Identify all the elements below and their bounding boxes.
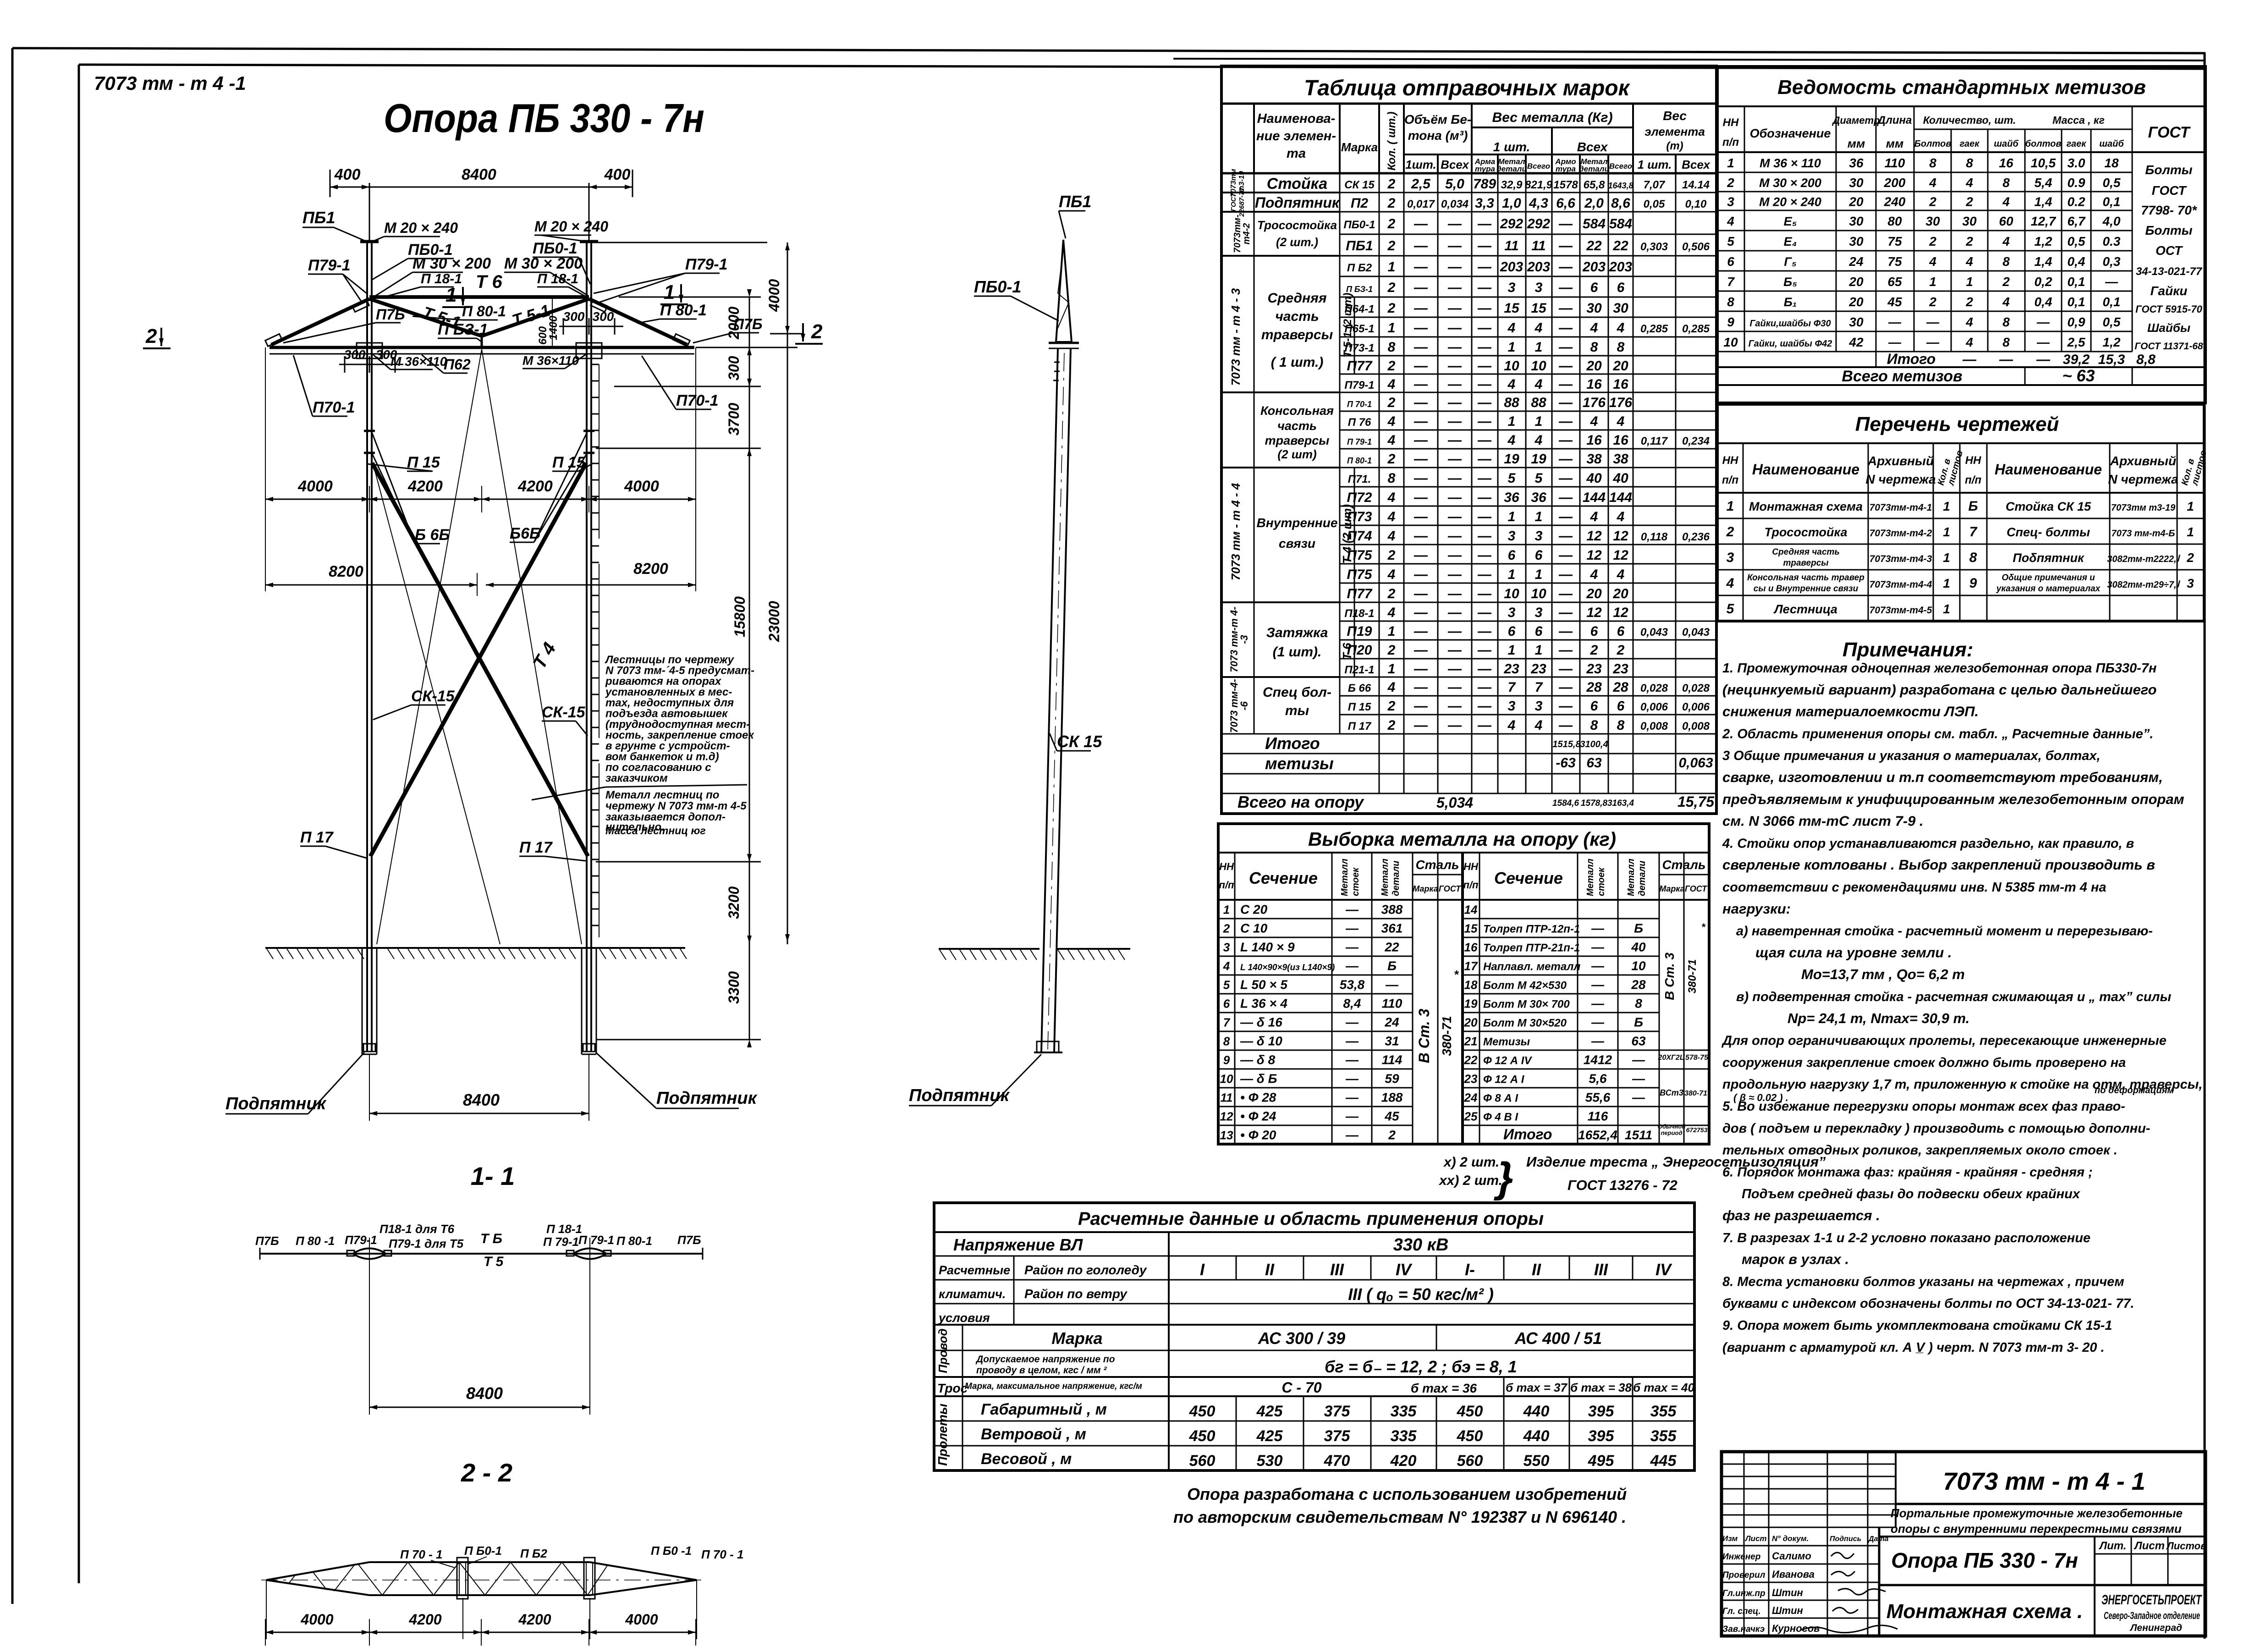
svg-text:—: — [1413, 661, 1428, 677]
thin tie line a [377, 349, 482, 944]
svg-text:1: 1 [1535, 643, 1543, 658]
svg-text:Допускаемое напряжение по: Допускаемое напряжение по [975, 1354, 1115, 1365]
svg-text:(вариант с арматурой кл. А: (вариант с арматурой кл. А V̲ ) черт. N … [1722, 1340, 2105, 1355]
svg-text:Мо=13,7 тм , Qо= 6,2 т: Мо=13,7 тм , Qо= 6,2 т [1801, 966, 1965, 982]
svg-text:Северо-Западное отделение: Северо-Западное отделение [2104, 1610, 2200, 1621]
svg-text:П70-1: П70-1 [313, 399, 355, 416]
svg-text:4: 4 [1534, 320, 1543, 336]
svg-text:335: 335 [1391, 1403, 1417, 1420]
svg-text:Подъем средней фазы: Подъем средней фазы до подвески обеих кр… [1742, 1187, 2081, 1201]
svg-text:450: 450 [1457, 1427, 1483, 1445]
vyborka data rows [1218, 918, 1413, 920]
svg-text:—: — [1345, 1034, 1359, 1048]
svg-text:4: 4 [1507, 433, 1516, 448]
svg-text:4: 4 [1387, 414, 1396, 429]
svg-text:—: — [1345, 959, 1359, 973]
svg-text:144: 144 [1609, 490, 1632, 505]
svg-text:т4-2: т4-2 [1242, 223, 1252, 245]
svg-text:4: 4 [1590, 414, 1598, 429]
svg-text:16: 16 [1613, 433, 1628, 448]
svg-text:—: — [1413, 624, 1428, 639]
ref line 15800 bottom [596, 861, 761, 863]
svg-text:II: II [1265, 1260, 1275, 1279]
svg-text:4: 4 [1965, 335, 1973, 349]
svg-text:—: — [1447, 605, 1462, 620]
svg-text:Е₄: Е₄ [1784, 235, 1797, 248]
svg-text:3: 3 [1508, 605, 1516, 620]
svg-text:Оδщие примечания и: Оδщие примечания и [2002, 573, 2095, 583]
svg-text:1,0: 1,0 [1502, 196, 1521, 211]
svg-text:—: — [1413, 509, 1428, 524]
svg-text:—: — [1413, 395, 1428, 410]
svg-text:176: 176 [1609, 395, 1632, 410]
svg-text:578-75: 578-75 [1685, 1054, 1709, 1062]
svg-text:36: 36 [1504, 490, 1519, 505]
svg-text:6: 6 [1590, 624, 1598, 639]
svg-text:2,0: 2,0 [1584, 196, 1604, 211]
svg-text:7073тм-т4-2: 7073тм-т4-2 [1870, 528, 1932, 539]
svg-text:88: 88 [1531, 395, 1546, 410]
svg-text:—: — [1413, 529, 1428, 544]
svg-text:—: — [1632, 1053, 1645, 1067]
svg-text:—: — [1591, 978, 1605, 992]
svg-text:Т Б: Т Б [480, 1231, 502, 1246]
vedomost data rows [1717, 172, 2132, 173]
svg-text:292: 292 [1500, 216, 1523, 231]
svg-text:—: — [1447, 414, 1462, 429]
signature scribbles [1831, 1553, 1854, 1558]
svg-text:Всех: Всех [1441, 158, 1469, 171]
svg-text:ПБ1: ПБ1 [1059, 192, 1091, 211]
svg-text:—: — [1477, 605, 1492, 620]
svg-text:7: 7 [1508, 680, 1516, 695]
svg-text:7073 тм - т 4 - 3: 7073 тм - т 4 - 3 [1229, 288, 1243, 385]
svg-text:4: 4 [1929, 176, 1936, 190]
svg-text:4: 4 [1965, 315, 1973, 329]
svg-text:2: 2 [811, 320, 823, 343]
svg-text:14.14: 14.14 [1682, 179, 1710, 191]
svg-text:—: — [1591, 1015, 1605, 1030]
svg-text:Лит.: Лит. [2099, 1540, 2127, 1552]
svg-text:114: 114 [1382, 1053, 1402, 1067]
svg-text:2: 2 [1387, 358, 1396, 374]
svg-text:355: 355 [1650, 1403, 1677, 1420]
svg-text:ГОСТ: ГОСТ [2152, 183, 2188, 198]
svg-text:П 70 - 1: П 70 - 1 [400, 1547, 442, 1561]
svg-text:0.9: 0.9 [2068, 176, 2085, 190]
svg-text:П77: П77 [1347, 358, 1373, 374]
svg-text:8: 8 [1223, 1035, 1230, 1048]
svg-text:1: 1 [1535, 340, 1543, 355]
svg-text:ГОСТ 5915-70: ГОСТ 5915-70 [2135, 303, 2202, 315]
table perechen chertezhey outline [1717, 404, 2204, 621]
svg-text:1. Промежуточная одноцепная: 1. Промежуточная одноцепная железобетонн… [1722, 661, 2156, 676]
pit outline right pole [581, 949, 583, 1054]
svg-text:39,2: 39,2 [2063, 352, 2090, 367]
svg-text:10: 10 [1504, 358, 1519, 374]
svg-text:Всего на опору: Всего на опору [1237, 793, 1364, 811]
svg-text:1400: 1400 [547, 315, 560, 340]
svg-text:ГОСТ 11371-68: ГОСТ 11371-68 [2134, 341, 2203, 352]
svg-text:6. Порядок монтажа фаз: кр: 6. Порядок монтажа фаз: крайняя - крайня… [1722, 1165, 2093, 1179]
svg-text:П 80-1: П 80-1 [616, 1234, 652, 1248]
svg-text:12: 12 [1613, 605, 1628, 620]
svg-text:1643,8: 1643,8 [1608, 181, 1633, 190]
ladder tick marks right pole [592, 364, 599, 365]
svg-text:ние элемен-: ние элемен- [1256, 129, 1336, 143]
svg-text:2: 2 [1727, 176, 1734, 190]
svg-text:1: 1 [1508, 509, 1516, 524]
svg-text:—: — [1632, 1090, 1645, 1105]
svg-text:0,3: 0,3 [2103, 254, 2121, 269]
svg-text:С - 70: С - 70 [1281, 1379, 1321, 1396]
svg-text:300: 300 [563, 309, 585, 324]
svg-text:Напряжение ВЛ: Напряжение ВЛ [953, 1235, 1083, 1254]
svg-text:2: 2 [1388, 1128, 1396, 1142]
svg-text:Диаметр: Диаметр [1831, 115, 1880, 126]
svg-text:330 кВ: 330 кВ [1393, 1235, 1449, 1255]
svg-text:63: 63 [1586, 755, 1602, 771]
svg-text:—: — [1477, 259, 1492, 275]
svg-text:*: * [1701, 921, 1706, 933]
svg-text:2: 2 [1387, 280, 1396, 295]
svg-text:Nр= 24,1 т, Nmax= 30,9 т.: Nр= 24,1 т, Nmax= 30,9 т. [1787, 1010, 1969, 1026]
svg-text:0.2: 0.2 [2068, 195, 2085, 209]
svg-text:—: — [1447, 529, 1462, 544]
svg-text:7073 тм - т 4 - 1: 7073 тм - т 4 - 1 [1943, 1468, 2145, 1495]
svg-text:ГОСТ: ГОСТ [1230, 192, 1237, 211]
svg-text:3: 3 [1508, 529, 1516, 544]
svg-text:П Б0-1: П Б0-1 [464, 1544, 502, 1558]
svg-text:4: 4 [1965, 176, 1973, 190]
svg-text:0,1: 0,1 [2068, 295, 2085, 309]
svg-text:530: 530 [1257, 1452, 1283, 1470]
svg-text:23: 23 [1464, 1072, 1478, 1086]
svg-text:—: — [1447, 320, 1462, 336]
svg-text:-63: -63 [1556, 755, 1576, 771]
svg-text:380-71: 380-71 [1686, 959, 1699, 994]
svg-text:ПБ1: ПБ1 [302, 208, 335, 227]
svg-text:Опора разработана с испол: Опора разработана с использованием изобр… [1187, 1485, 1627, 1503]
vyborka header [1234, 853, 1236, 1144]
svg-text:П62: П62 [444, 356, 471, 373]
svg-text:—: — [1447, 471, 1462, 486]
svg-text:7073 тм - т 4 - 4: 7073 тм - т 4 - 4 [1229, 483, 1243, 580]
svg-text:сверленые котлованы . Выбор: сверленые котлованы . Выбор закреплений … [1722, 857, 2155, 873]
svg-text:12: 12 [1586, 548, 1602, 563]
svg-text:Длина: Длина [1877, 114, 1912, 127]
svg-text:П 18-1: П 18-1 [546, 1222, 582, 1236]
svg-text:СК-15: СК-15 [411, 688, 455, 705]
svg-text:Монтажная схема: Монтажная схема [1749, 500, 1863, 513]
svg-text:Затяжка: Затяжка [1266, 625, 1328, 640]
svg-text:9: 9 [1727, 315, 1734, 329]
svg-text:20ХГ2Ц: 20ХГ2Ц [1658, 1054, 1685, 1062]
hanger PB3-1 [481, 336, 483, 347]
svg-text:110: 110 [1382, 997, 1402, 1011]
svg-text:4: 4 [1617, 320, 1625, 336]
svg-text:Марка: Марка [1413, 884, 1438, 893]
svg-text:М 30 × 200: М 30 × 200 [412, 255, 491, 272]
svg-text:7798- 70*: 7798- 70* [2141, 203, 2197, 217]
svg-text:—: — [1477, 586, 1492, 601]
svg-text:4: 4 [1387, 529, 1396, 544]
svg-text:20: 20 [1586, 358, 1602, 374]
svg-text:0,006: 0,006 [1640, 701, 1668, 713]
svg-text:7: 7 [1727, 275, 1735, 289]
svg-text:335: 335 [1391, 1427, 1417, 1445]
svg-text:—: — [1888, 335, 1902, 349]
svg-text:11: 11 [1221, 1091, 1233, 1105]
svg-text:375: 375 [1324, 1403, 1351, 1420]
svg-text:8: 8 [2002, 254, 2010, 269]
svg-text:10: 10 [1723, 335, 1738, 349]
svg-text:Опора ПБ 330 - 7н: Опора ПБ 330 - 7н [1891, 1548, 2078, 1572]
svg-text:—: — [1558, 238, 1573, 253]
svg-text:10: 10 [1631, 959, 1646, 973]
svg-text:условия: условия [938, 1311, 990, 1325]
svg-text:—: — [1558, 680, 1573, 695]
svg-text:8200: 8200 [329, 563, 363, 580]
svg-text:0,4: 0,4 [2068, 254, 2085, 269]
svg-text:560: 560 [1189, 1452, 1215, 1470]
svg-text:—: — [1447, 377, 1462, 392]
svg-text:—: — [1447, 433, 1462, 448]
svg-text:а) наветренная стойка - расч: а) наветренная стойка - расчетный момент… [1736, 924, 2153, 939]
ground line and hatching left drawing [265, 947, 685, 949]
svg-text:12: 12 [1220, 1110, 1233, 1123]
svg-text:Наплавл. металл: Наплавл. металл [1483, 961, 1580, 973]
svg-text:40: 40 [1631, 940, 1646, 954]
svg-text:—: — [1558, 661, 1573, 677]
svg-text:4: 4 [1617, 567, 1625, 582]
svg-text:—: — [2036, 335, 2050, 349]
svg-text:6: 6 [1535, 624, 1543, 639]
svg-text:8: 8 [2002, 176, 2010, 190]
svg-text:5: 5 [1727, 234, 1734, 248]
middle pole center dashline [1048, 353, 1064, 1050]
svg-text:—: — [1477, 699, 1492, 714]
svg-text:1: 1 [1929, 275, 1936, 289]
svg-text:4: 4 [1387, 680, 1396, 695]
svg-text:П 80-1: П 80-1 [660, 302, 707, 319]
svg-text:Спец- болты: Спец- болты [2007, 525, 2090, 539]
svg-text:П 17: П 17 [300, 829, 334, 846]
svg-text:1: 1 [2187, 499, 2194, 513]
title block signature grid upper [1721, 1464, 1896, 1465]
svg-text:12: 12 [1586, 529, 1602, 544]
svg-text:1: 1 [1388, 661, 1396, 677]
svg-text:в) подветренная стойка - расч: в) подветренная стойка - расчетная сжима… [1736, 990, 2171, 1004]
svg-text:Подпись: Подпись [1830, 1535, 1861, 1543]
pole boot left [363, 1044, 375, 1052]
middle pole boot [1037, 1041, 1059, 1052]
section 1-1 node right lens [573, 1249, 606, 1259]
svg-text:21: 21 [1464, 1035, 1478, 1048]
svg-text:188: 188 [1381, 1090, 1403, 1105]
svg-text:3163,4: 3163,4 [1607, 798, 1634, 808]
svg-text:0,9: 0,9 [2068, 315, 2085, 329]
svg-text:Количество, шт.: Количество, шт. [1923, 114, 2016, 126]
svg-text:п/п: п/п [1722, 474, 1738, 486]
svg-text:40: 40 [1612, 471, 1628, 486]
svg-text:Всех: Всех [1577, 140, 1608, 154]
svg-text:65,8: 65,8 [1584, 179, 1605, 191]
svg-text:Район по ветру: Район по ветру [1024, 1287, 1127, 1301]
svg-text:4: 4 [1617, 414, 1625, 429]
svg-text:8: 8 [1617, 718, 1625, 733]
svg-text:—: — [1477, 643, 1492, 658]
svg-text:—: — [1345, 903, 1359, 917]
svg-text:440: 440 [1523, 1403, 1550, 1420]
svg-text:240: 240 [1884, 195, 1906, 209]
table vyborka outline [1218, 824, 1709, 1144]
svg-text:7073тм-т4-1: 7073тм-т4-1 [1870, 502, 1932, 513]
svg-text:Б: Б [1387, 959, 1397, 973]
svg-text:4: 4 [2002, 195, 2010, 209]
svg-text:Ф 12 А I: Ф 12 А I [1483, 1074, 1525, 1086]
svg-text:176: 176 [1583, 395, 1606, 410]
svg-text:—: — [1447, 643, 1462, 658]
svg-text:М 30 × 200: М 30 × 200 [1759, 176, 1821, 190]
svg-text:Стойка СК 15: Стойка СК 15 [2006, 500, 2091, 513]
svg-text:1,2: 1,2 [2035, 234, 2052, 248]
svg-text:380-71: 380-71 [1684, 1090, 1707, 1097]
svg-text:Архивный: Архивный [2110, 454, 2176, 468]
svg-text:584: 584 [1609, 216, 1632, 231]
svg-text:В Ст. 3: В Ст. 3 [1662, 953, 1677, 1000]
svg-text:18: 18 [1464, 978, 1478, 992]
svg-text:М 20 × 240: М 20 × 240 [534, 218, 608, 235]
svg-text:(2 шт.): (2 шт.) [1276, 235, 1318, 249]
svg-text:—: — [1447, 358, 1462, 374]
svg-text:23: 23 [1612, 661, 1628, 677]
svg-text:0,008: 0,008 [1682, 720, 1710, 732]
svg-text:388: 388 [1381, 903, 1403, 917]
svg-text:Сталь: Сталь [1415, 858, 1459, 872]
svg-text:Металл: Металл [1380, 859, 1390, 896]
svg-text:18: 18 [2104, 156, 2119, 170]
pole boot right [583, 1044, 595, 1052]
svg-text:11: 11 [1504, 238, 1518, 253]
svg-text:Таблица отправочных марок: Таблица отправочных марок [1304, 76, 1631, 100]
svg-text:Габаритный , м: Габаритный , м [981, 1401, 1107, 1418]
svg-text:—: — [1888, 315, 1902, 329]
svg-text:Наименование: Наименование [1752, 461, 1859, 478]
svg-text:Стойка: Стойка [1267, 175, 1327, 193]
svg-text:Опора ПБ 330 - 7н: Опора ПБ 330 - 7н [384, 95, 704, 141]
svg-text:ГОСТ: ГОСТ [1685, 884, 1708, 893]
svg-text:2: 2 [1223, 922, 1230, 936]
svg-text:Т 6: Т 6 [476, 272, 503, 292]
svg-text:1: 1 [1508, 340, 1516, 355]
svg-text:16: 16 [1586, 377, 1602, 392]
svg-text:24: 24 [1384, 1015, 1399, 1030]
section 1-1 dim 8400 [369, 1265, 370, 1415]
svg-text:—: — [1477, 301, 1492, 316]
svg-text:25: 25 [1464, 1110, 1478, 1123]
svg-text:Средняя часть: Средняя часть [1772, 547, 1839, 557]
border frame inner [79, 65, 2205, 69]
svg-text:п/п: п/п [1722, 136, 1739, 149]
svg-text:23000: 23000 [766, 601, 782, 642]
svg-text:— δ 8: — δ 8 [1240, 1053, 1276, 1067]
svg-text:1578: 1578 [1553, 179, 1578, 191]
svg-text:—: — [1477, 340, 1492, 355]
svg-text:1578,8: 1578,8 [1581, 798, 1608, 808]
traverse lower chord second line [269, 353, 694, 355]
svg-text:—: — [1413, 340, 1428, 355]
svg-text:б mах = 38: б mах = 38 [1570, 1381, 1632, 1394]
svg-text:Е₅: Е₅ [1784, 215, 1797, 228]
svg-text:0,5: 0,5 [2068, 234, 2085, 248]
svg-text:—: — [1413, 586, 1428, 601]
svg-text:5,0: 5,0 [1445, 176, 1464, 192]
svg-text:10: 10 [1531, 586, 1546, 601]
svg-text:8: 8 [1590, 340, 1598, 355]
svg-text:L 50 × 5: L 50 × 5 [1240, 978, 1287, 992]
svg-text:8: 8 [1388, 471, 1396, 486]
svg-text:—: — [2036, 315, 2050, 329]
svg-text:55,6: 55,6 [1585, 1090, 1611, 1105]
svg-text:Штин: Штин [1772, 1587, 1803, 1598]
svg-text:3: 3 [1535, 529, 1543, 544]
right cable mast PB1 [588, 183, 590, 242]
svg-text:Металл: Металл [1626, 859, 1636, 896]
svg-text:8400: 8400 [466, 1384, 503, 1403]
svg-text:—: — [1345, 1072, 1359, 1086]
svg-text:13: 13 [1220, 1129, 1233, 1142]
svg-text:п/п: п/п [1463, 879, 1479, 891]
svg-text:—: — [1447, 301, 1462, 316]
svg-text:Итого: Итого [1887, 351, 1936, 367]
svg-text:425: 425 [1256, 1403, 1283, 1420]
svg-text:1- 1: 1- 1 [471, 1162, 515, 1190]
svg-text:Ленинград: Ленинград [2129, 1623, 2182, 1633]
collar small ticks [1054, 362, 1060, 363]
title block outline [1721, 1452, 2205, 1636]
svg-text:Г₅: Г₅ [1784, 255, 1796, 269]
svg-text:период: период [1661, 1129, 1682, 1136]
svg-text:Обычной: Обычной [1658, 1123, 1686, 1130]
svg-text:— δ 16: — δ 16 [1240, 1015, 1282, 1030]
svg-text:300: 300 [593, 309, 614, 324]
svg-text:15: 15 [1531, 301, 1547, 316]
svg-text:65: 65 [1887, 275, 1902, 289]
svg-text:—: — [1345, 1109, 1359, 1123]
svg-text:2: 2 [1387, 216, 1396, 231]
svg-text:—: — [1477, 377, 1492, 392]
svg-text:1412: 1412 [1584, 1053, 1612, 1067]
svg-text:—: — [1345, 921, 1359, 936]
svg-text:—: — [1413, 490, 1428, 505]
raschet col lines [1168, 1232, 1170, 1470]
svg-text:42: 42 [1848, 335, 1864, 349]
svg-text:Толреп ПТР-21п-1: Толреп ПТР-21п-1 [1483, 942, 1580, 954]
svg-text:—: — [1477, 395, 1492, 410]
svg-text:Марка: Марка [1341, 140, 1378, 154]
svg-text:3: 3 [1727, 550, 1734, 565]
vyborka steel cells separators right [1659, 1050, 1709, 1051]
svg-text:19: 19 [1464, 997, 1478, 1011]
svg-text:6,7: 6,7 [2068, 214, 2086, 228]
svg-text:Зав.начкэ: Зав.начкэ [1722, 1624, 1765, 1634]
svg-text:болтов: болтов [2025, 139, 2062, 149]
svg-text:-3: -3 [1238, 635, 1250, 644]
svg-text:Примечания:: Примечания: [1842, 639, 1973, 661]
svg-text:0,10: 0,10 [1685, 198, 1707, 210]
svg-text:—: — [1558, 490, 1573, 505]
